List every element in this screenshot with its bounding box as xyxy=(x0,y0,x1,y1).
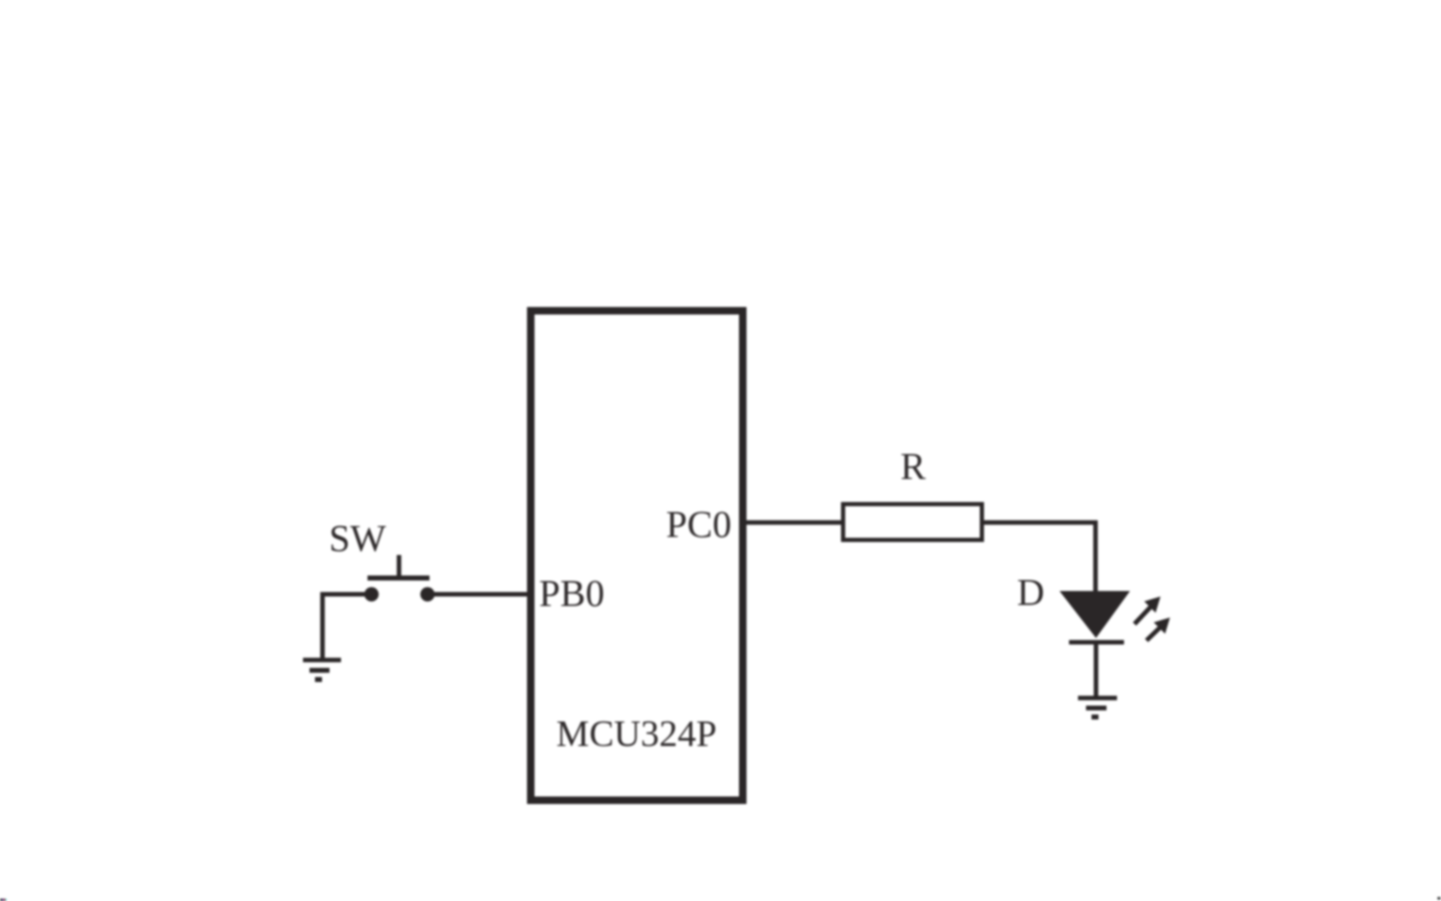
scan speck bottom-left corner xyxy=(0,899,7,901)
ground left bar 2 xyxy=(310,668,330,673)
svg-text:D: D xyxy=(1017,572,1044,614)
wire resistor to LED anode xyxy=(982,523,1096,594)
resistor R body xyxy=(843,504,982,540)
wire switch to PB0 pin xyxy=(427,592,531,597)
LED light arrow 2 xyxy=(1147,618,1171,641)
pin label PB0 xyxy=(539,573,604,615)
svg-text:PB0: PB0 xyxy=(539,573,604,615)
ground right bar 2 xyxy=(1086,706,1107,711)
switch SW contact dot right xyxy=(420,587,434,601)
label R xyxy=(900,446,926,488)
ground right bar 1 xyxy=(1078,696,1117,701)
scan speck bottom-right xyxy=(1438,897,1441,900)
LED light arrow 1 xyxy=(1135,597,1161,625)
wire PC0 pin to resistor xyxy=(743,520,843,525)
switch SW actuator stem xyxy=(397,555,402,578)
svg-text:R: R xyxy=(900,446,926,488)
switch SW actuator bar xyxy=(368,576,430,581)
pin label PC0 xyxy=(666,504,731,546)
wire ground riser to switch left contact xyxy=(323,594,372,660)
mcu label MCU324P xyxy=(556,714,716,755)
svg-text:MCU324P: MCU324P xyxy=(556,714,716,755)
switch SW contact dot left xyxy=(364,587,378,601)
label D xyxy=(1017,572,1044,614)
svg-text:PC0: PC0 xyxy=(666,504,731,546)
mcu U1 body xyxy=(531,311,743,801)
LED D anode triangle xyxy=(1060,591,1131,638)
label SW xyxy=(329,518,386,560)
ground left bar 1 xyxy=(303,658,341,663)
ground right bar 3 xyxy=(1092,715,1099,720)
ground left bar 3 xyxy=(315,677,322,682)
svg-text:SW: SW xyxy=(329,518,386,560)
LED D cathode bar xyxy=(1069,640,1124,645)
wire LED cathode to ground xyxy=(1094,640,1099,698)
